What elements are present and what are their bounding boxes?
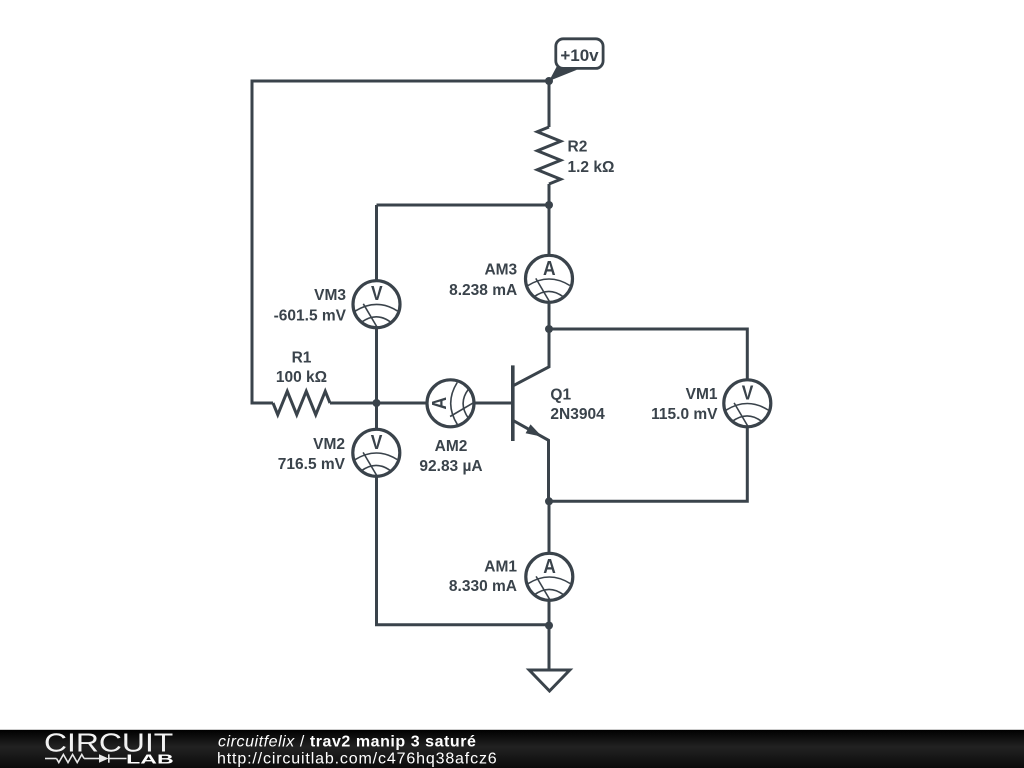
svg-text:1.2 kΩ: 1.2 kΩ bbox=[568, 159, 615, 176]
svg-text:V: V bbox=[742, 382, 754, 404]
svg-text:LAB: LAB bbox=[126, 752, 174, 767]
svg-text:-601.5 mV: -601.5 mV bbox=[274, 307, 347, 324]
svg-text:A: A bbox=[543, 556, 556, 578]
svg-text:R1: R1 bbox=[292, 350, 312, 367]
svg-text:A: A bbox=[429, 397, 451, 410]
svg-text:+10v: +10v bbox=[560, 46, 599, 65]
svg-text:R2: R2 bbox=[568, 139, 588, 156]
svg-text:8.238 mA: 8.238 mA bbox=[449, 282, 517, 299]
svg-text:V: V bbox=[371, 283, 383, 305]
svg-text:92.83 µA: 92.83 µA bbox=[419, 458, 482, 475]
svg-text:VM2: VM2 bbox=[313, 436, 345, 453]
svg-text:V: V bbox=[371, 432, 383, 454]
svg-text:circuitfelix / trav2 manip 3 s: circuitfelix / trav2 manip 3 saturé bbox=[218, 734, 476, 751]
svg-text:VM3: VM3 bbox=[314, 287, 346, 304]
svg-text:Q1: Q1 bbox=[550, 386, 571, 403]
svg-text:AM2: AM2 bbox=[435, 438, 468, 455]
svg-text:AM3: AM3 bbox=[484, 262, 517, 279]
svg-text:VM1: VM1 bbox=[686, 386, 718, 403]
svg-text:8.330 mA: 8.330 mA bbox=[449, 578, 517, 595]
svg-text:A: A bbox=[543, 258, 556, 280]
svg-text:AM1: AM1 bbox=[484, 559, 517, 576]
svg-text:115.0 mV: 115.0 mV bbox=[651, 406, 718, 423]
svg-text:100 kΩ: 100 kΩ bbox=[276, 369, 327, 386]
svg-text:http://circuitlab.com/c476hq38: http://circuitlab.com/c476hq38afcz6 bbox=[217, 750, 498, 767]
svg-text:716.5 mV: 716.5 mV bbox=[278, 456, 346, 473]
svg-text:2N3904: 2N3904 bbox=[550, 406, 605, 423]
